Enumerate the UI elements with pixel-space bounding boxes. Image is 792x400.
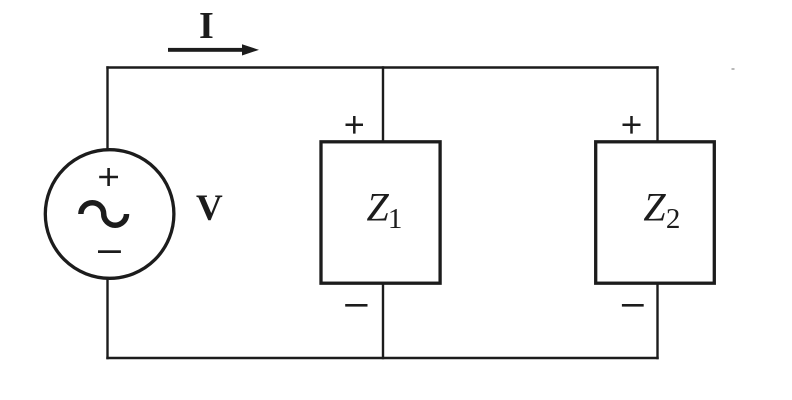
polarity + at Z1 bbox=[346, 116, 364, 134]
wire: top horizontal bbox=[106, 66, 658, 68]
polarity − at Z1 bbox=[345, 304, 367, 307]
label Z2 bbox=[643, 184, 680, 235]
wire: Z1 top lead bbox=[382, 66, 384, 141]
svg-text:Z: Z bbox=[643, 184, 666, 229]
wire: Z2 top lead bbox=[656, 66, 658, 141]
svg-text:1: 1 bbox=[388, 203, 403, 235]
current arrow bbox=[168, 44, 259, 55]
ac voltage source bbox=[45, 150, 174, 279]
impedance Z2 box bbox=[596, 142, 715, 283]
impedance Z1 box bbox=[321, 142, 440, 283]
wire: bottom horizontal bbox=[106, 357, 658, 359]
polarity + at Z2 bbox=[623, 116, 641, 134]
wire: Z1 bottom lead bbox=[382, 284, 384, 360]
svg-text:Z: Z bbox=[367, 185, 390, 230]
wire: left vertical lower bbox=[106, 278, 108, 359]
svg-text:V: V bbox=[196, 188, 223, 229]
wire: left vertical upper bbox=[106, 66, 108, 150]
polarity − at Z2 bbox=[622, 304, 644, 307]
wire: Z2 bottom lead bbox=[656, 284, 658, 360]
label Z1 bbox=[367, 185, 403, 236]
svg-text:2: 2 bbox=[666, 203, 681, 235]
svg-text:I: I bbox=[199, 5, 214, 47]
